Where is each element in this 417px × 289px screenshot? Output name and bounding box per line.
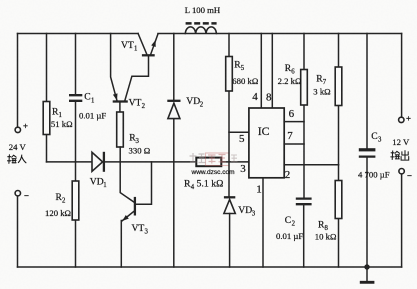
- inductor L 100mH coil: [185, 27, 216, 34]
- wire pin7 line: [284, 143, 304, 145]
- resistor R2: [75, 162, 77, 267]
- diode VD1: [92, 152, 103, 171]
- wire left drop to + input: [17, 34, 19, 128]
- wire pin6 line: [284, 121, 304, 123]
- terminal + output: [399, 117, 404, 122]
- resistor R4 horizontal: [196, 158, 221, 167]
- capacitor C2: [296, 199, 312, 205]
- diode VD3: [224, 196, 235, 198]
- wire pin4: [260, 34, 262, 109]
- wire pin2 line: [284, 164, 338, 166]
- diode VD2 freewheel: [173, 34, 175, 268]
- resistor R8: [338, 165, 340, 267]
- op-amp IC block: [249, 108, 284, 178]
- inductor core dashes: [186, 22, 217, 25]
- wire pin8: [271, 34, 273, 109]
- resistor R7: [338, 34, 340, 165]
- ground: [366, 267, 368, 281]
- wire pin1: [262, 178, 264, 267]
- transistor VT3: [134, 197, 136, 216]
- wire top rail left segment: [18, 33, 139, 35]
- wire bottom rail: [18, 266, 402, 268]
- junction node dot: [364, 264, 369, 269]
- wire top rail right segment: [158, 33, 402, 35]
- capacitor C3 electrolytic: [366, 34, 368, 268]
- cjk 输出 (output): [391, 151, 409, 161]
- terminal + input: [15, 127, 20, 132]
- wire left from - input to bottom rail: [17, 196, 19, 267]
- resistor R1: [46, 34, 48, 162]
- transistor VT1: [138, 34, 147, 54]
- terminal - input: [15, 191, 20, 196]
- wire VT2 emitter feed from top rail: [111, 34, 117, 101]
- faint scan noise: [0, 0, 1, 1]
- resistor R3: [117, 112, 124, 147]
- wire main horizontal node line: [47, 161, 249, 163]
- terminal - output: [399, 169, 404, 174]
- watermark red characters: [190, 153, 238, 166]
- wire R3 bottom to VT3 base: [120, 147, 134, 203]
- arrowhead VT2 emitter (PNP, into bar): [113, 93, 118, 100]
- capacitor C1: [75, 34, 77, 162]
- wire right rise from - output: [401, 174, 403, 267]
- resistor R5: [228, 34, 230, 198]
- wire right drop to + output: [401, 34, 403, 118]
- transistor VT2: [113, 100, 128, 102]
- cjk 输入 (input): [7, 155, 26, 164]
- resistor R6: [303, 34, 305, 199]
- wire pin5 line: [229, 131, 249, 133]
